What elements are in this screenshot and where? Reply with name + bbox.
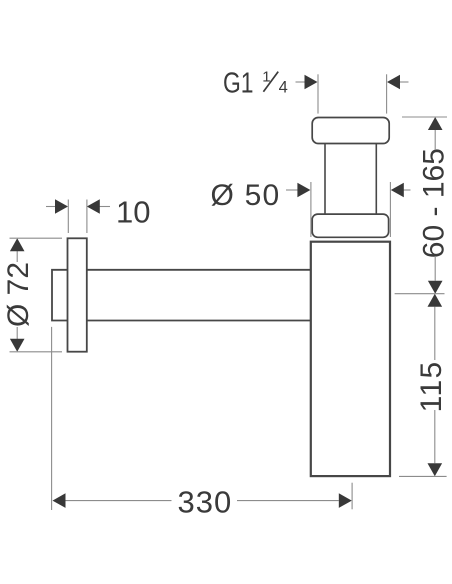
- dim 10 left arrow: [46, 199, 68, 214]
- svg-text:Ø 50: Ø 50: [211, 179, 281, 212]
- G1 1/4 left arrow: [296, 75, 318, 90]
- dim 115 dimension line upper segment: [434, 307, 436, 360]
- dia 50 left arrow: [286, 183, 310, 198]
- dim 115 top arrow (up): [428, 294, 443, 307]
- dia 50 left extension line: [310, 182, 312, 237]
- dia 72 top extension line: [10, 237, 63, 239]
- dim 330 dimension line right segment: [237, 500, 339, 502]
- svg-text:10: 10: [116, 195, 150, 230]
- trap body: [311, 242, 390, 476]
- svg-text:330: 330: [178, 485, 233, 520]
- outlet pipe bottom wall: [87, 320, 311, 322]
- dim 60-165 bottom arrow (down): [428, 281, 443, 294]
- svg-text:4: 4: [279, 78, 288, 96]
- dia 72 bottom arrow (down): [10, 339, 25, 352]
- outlet pipe top wall: [87, 269, 311, 271]
- svg-text:Ø 72: Ø 72: [2, 262, 35, 327]
- svg-text:60 - 165: 60 - 165: [418, 148, 451, 258]
- dim 330 right extension line: [351, 483, 353, 510]
- dim 10 right arrow: [87, 199, 110, 214]
- dim 60-165 top extension line: [402, 116, 447, 118]
- dim 60-165 top arrow (up): [428, 117, 443, 130]
- svg-text:115: 115: [415, 360, 448, 412]
- dim 10 left extension line: [67, 200, 69, 234]
- dimension G 1 1/4 label: [223, 68, 288, 100]
- wall stub of outlet pipe: [52, 270, 67, 321]
- dia 72 bottom extension line: [10, 351, 63, 353]
- dim 115 dimension line lower segment: [434, 410, 436, 463]
- inlet nut (top rounded fitting): [312, 118, 389, 144]
- dia 72 dimension line lower segment: [16, 327, 18, 339]
- inlet pipe left wall: [324, 144, 326, 215]
- svg-text:G1: G1: [223, 68, 254, 100]
- wall flange (escutcheon): [68, 238, 87, 351]
- dia 50 right arrow: [391, 183, 411, 198]
- G1 1/4 right arrow: [387, 75, 409, 90]
- dim 10 right extension line: [86, 200, 88, 234]
- G1 1/4 left extension line: [317, 74, 319, 113]
- dim 60-165 dimension line upper segment: [434, 130, 436, 150]
- dim 330 dimension line left segment: [66, 500, 172, 502]
- dia 50 right extension line: [389, 182, 391, 237]
- dim 330 left extension line: [51, 327, 53, 510]
- inlet pipe right wall: [375, 144, 377, 215]
- dim 115 bottom arrow (down): [428, 463, 443, 476]
- union flange (rounded): [312, 214, 388, 237]
- dia 72 dimension line upper segment: [16, 251, 18, 262]
- dim 330 right arrow: [339, 493, 352, 508]
- dia 72 top arrow (up): [10, 238, 25, 251]
- dim 60-165 dimension line lower segment: [434, 256, 436, 281]
- G1 1/4 right extension line: [386, 74, 388, 113]
- dim 330 left arrow: [53, 493, 66, 508]
- shared extension line at pipe axis: [395, 293, 445, 295]
- dim 115 bottom extension line: [399, 475, 447, 477]
